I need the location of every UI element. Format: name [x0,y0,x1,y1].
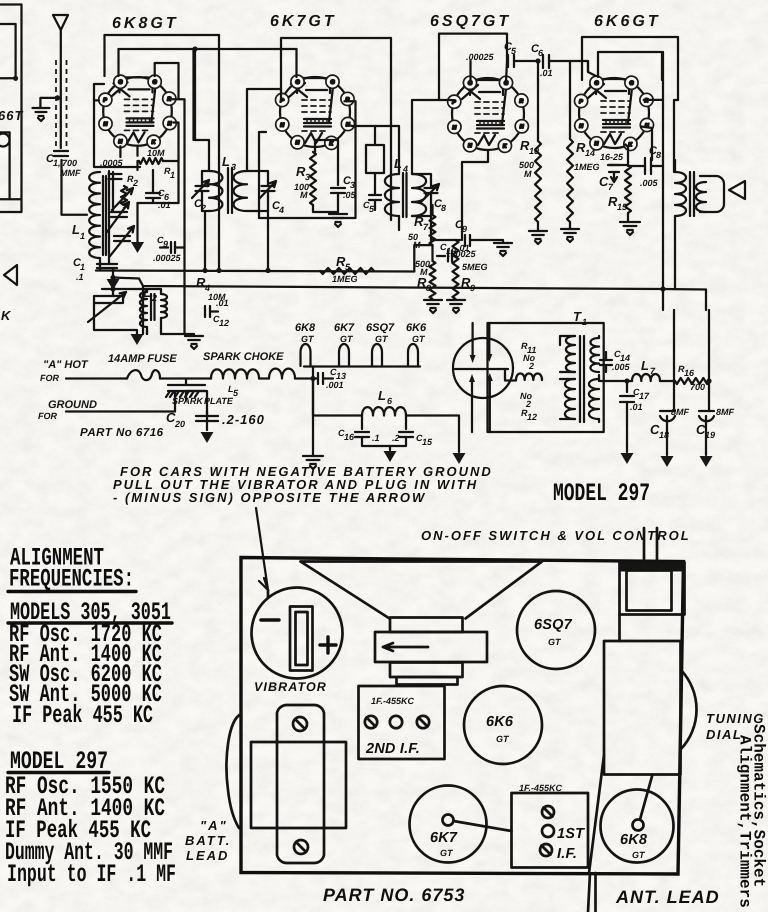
svg-text:.2: .2 [392,433,400,443]
svg-text:66T: 66T [0,108,23,123]
capacitor C17 .01 [620,381,634,452]
svg-text:1,: 1, [53,158,61,168]
svg-text:16-25: 16-25 [600,152,624,162]
svg-text:1: 1 [170,170,175,180]
svg-text:8MF: 8MF [671,407,690,417]
svg-text:1: 1 [80,231,85,241]
tube V1 6K8GT pins [99,75,177,148]
wire plate vertical x219 down to AVC bus [218,35,220,271]
ground under C3 [313,205,338,214]
svg-text:LEAD: LEAD [186,848,229,863]
wire cathode junction [609,145,628,166]
capacitor C13 .001 [313,373,333,384]
trimmer capacitor across L2 [94,296,123,320]
tube V3 6SQ7GT envelope [452,78,524,150]
svg-text:14AMP FUSE: 14AMP FUSE [108,353,177,365]
svg-text:G: G [153,80,157,86]
output transformer primary [675,172,686,216]
wire choke to vibrator coil [259,377,269,379]
tube V2 6K7GT pins [276,75,355,149]
coil L2 secondary [161,294,167,318]
svg-text:6K7GT: 6K7GT [270,13,337,30]
svg-text:8MF: 8MF [716,407,735,417]
wire pin N to grid resistor box [174,123,179,158]
solid arrow ground return of oscillator [136,203,138,242]
IF transformer L3 secondary [234,171,247,211]
wire L1 bottom to AVC bus [99,258,101,271]
vibrator circle on chassis [252,588,343,679]
svg-text:.0005: .0005 [100,158,124,168]
underline model 297 [8,771,109,774]
trimmer capacitor across L1 (osc padder) [111,212,127,217]
capacitor C12 .01 [205,306,218,317]
wire plate 6K7GT to L4 [315,140,338,160]
wire grid line x193.5 [192,49,194,140]
svg-text:17: 17 [639,391,650,401]
resistor R8 500M [430,261,436,299]
svg-text:H: H [119,139,123,145]
vibrator socket circle [453,338,513,398]
wire top bus 2 [119,48,297,50]
svg-text:GT: GT [301,334,315,344]
svg-text:H: H [104,122,108,128]
wire pin to right [344,101,355,218]
box around 6K8GT left [94,84,140,167]
screw bottom bracket [294,840,308,854]
svg-text:"A" HOT: "A" HOT [43,359,89,371]
control shaft [644,528,657,561]
wire AVC bus 1 [96,271,414,272]
wire B+ rails down [663,289,709,411]
svg-text:16: 16 [344,432,355,442]
svg-text:GT: GT [496,734,510,744]
capacitor C1b .1 on antenna coil return [97,264,117,278]
resistor R5 1MEG in AVC bus [320,268,374,274]
IF transformer L4 primary [385,174,399,216]
wire control box to tuning box [618,615,621,642]
hash coil to heater [269,369,295,379]
svg-text:FREQUENCIES:: FREQUENCIES: [9,565,134,594]
svg-text:1F.-455KC: 1F.-455KC [519,783,563,793]
ground under R10 [537,222,539,230]
core L3 [228,168,232,213]
capacitor C15 .2 [390,416,413,447]
trimmer C4 on L3 secondary [262,186,275,191]
tuning condenser box [604,641,681,775]
coil L2 primary [140,292,147,327]
ground under R8 [424,300,442,313]
wire grid cap 6K7GT [281,49,297,100]
chassis outline [241,558,684,875]
speaker cone outline [301,562,543,619]
wire pin P to box [94,99,99,101]
svg-text:Input to IF .1 MF: Input to IF .1 MF [7,860,176,889]
resistor R9 5MEG [454,255,456,257]
wire transformer secondary bottom [674,160,676,289]
T1 secondary windings [590,338,599,372]
antenna symbol [53,15,68,30]
tube V1 6K8GT envelope [103,77,172,146]
tube V4 6K6GT pins [575,76,654,150]
wire top box of 6K7GT [281,38,391,220]
capacitor C9b .00025 and ground [431,235,503,246]
svg-text:N: N [168,121,172,127]
power transformer bracket [277,705,324,863]
svg-text:GROUND: GROUND [48,399,97,411]
svg-text:FOR: FOR [38,411,57,421]
tube circle 6K7 on chassis [410,786,487,863]
svg-text:16: 16 [684,368,695,378]
svg-text:.00025: .00025 [466,52,495,62]
1st IF shield box [512,793,589,868]
tube circle 6K8 on chassis [601,790,674,863]
svg-text:.00025: .00025 [153,253,182,263]
svg-text:L: L [222,154,231,169]
svg-text:6K6: 6K6 [486,714,514,730]
svg-text:12: 12 [219,318,229,328]
svg-text:.2-160: .2-160 [222,412,265,427]
wire ground lead to spark plate [66,391,175,412]
capacitor C14 .005 buffer [600,352,612,372]
svg-text:GT: GT [340,334,354,344]
capacitor C4 .0005 [109,174,122,179]
ground under R15 [627,213,629,221]
capacitor C9 .00025 AVC [160,242,185,253]
partial circuit at left edge (cut off) [0,5,22,213]
resistor R14 1MEG volume control [569,61,571,139]
screws in 1st IF box [542,806,554,818]
underline heading [8,590,136,593]
svg-text:PLATE: PLATE [204,396,234,406]
battery lead wire [227,714,241,828]
svg-text:6K7: 6K7 [430,830,458,846]
2nd IF shield box [359,686,445,759]
svg-text:G: G [595,81,599,87]
resistor R7 50M [414,245,431,271]
filter choke L6 [362,407,406,415]
T1 primary windings [566,336,575,372]
svg-text:1: 1 [582,317,587,327]
wire screen [641,127,652,161]
tube circle 6SQ7 on chassis [517,591,595,669]
svg-text:.01: .01 [216,298,229,308]
svg-text:M: M [300,190,308,200]
svg-text:.001: .001 [326,380,344,390]
resistor R6 box to stage 3 [366,145,384,173]
wire 6K8 to tuning box [640,775,653,820]
capacitor C19 8MF electrolytic [699,411,714,455]
svg-text:GT: GT [548,637,562,647]
capacitor C3 .05 [331,160,345,212]
svg-text:6SQ7GT: 6SQ7GT [430,13,511,30]
wire L6 right to buffer [406,416,459,453]
wire R7 top to tube2 cathode bus [431,205,433,215]
speaker cone triangle [729,181,745,199]
antenna lead wire diagonal [588,755,604,912]
wire grid connections 6SQ7GT [439,61,471,100]
wire R1 to C6 box [138,157,179,203]
wire pin R right to oscillator section [172,99,184,334]
svg-text:6K8: 6K8 [295,322,316,334]
svg-text:8: 8 [656,150,661,160]
svg-text:8: 8 [441,203,446,213]
svg-text:G: G [630,81,634,87]
svg-text:H: H [280,122,284,128]
heater bus wire [304,365,420,367]
wire heater region to L6 filter [313,379,362,416]
wire plate of 6SQ7 to C5 [506,61,507,82]
wire top box 6SQ7GT [439,34,507,100]
vibrator slot [290,607,313,671]
svg-text:700: 700 [690,382,705,392]
svg-text:9: 9 [163,239,168,249]
vibrator contacts [455,368,508,370]
svg-text:4: 4 [278,205,284,215]
svg-text:15: 15 [617,202,628,212]
svg-text:.005: .005 [612,362,631,372]
svg-text:1MEG: 1MEG [574,162,600,172]
svg-text:6SQ7: 6SQ7 [366,322,395,334]
heater pin loops [301,344,311,366]
svg-text:H: H [468,143,472,149]
power transformer core on chassis [251,742,346,828]
IF transformer L4 secondary [412,174,426,216]
fuse MAMR [127,370,160,380]
resistor R15 cathode [627,147,629,165]
svg-text:1ST: 1ST [557,826,585,842]
wire antenna lead vertical [61,30,87,215]
svg-text:L: L [641,358,650,373]
tube circle 6K6 on chassis [464,686,542,764]
spark plate capacitor C20 [166,379,205,398]
tube V2 6K7GT envelope [280,77,350,147]
screw top bracket [293,717,307,731]
resistor R2 variable [121,186,127,208]
capacitor C6 .01 [146,193,160,198]
svg-text:4: 4 [402,164,408,174]
trimmer C8 on L4 secondary [425,188,438,193]
wire 6SQ7 cathode down [462,150,488,240]
solid arrow at C1b junction [107,279,120,290]
tube V4 6K6GT envelope [579,78,649,148]
junction node at L2 [110,286,115,291]
capacitor C8b .005 tone [628,158,663,174]
wire T1 secondary to L7 [599,375,632,381]
trimmer C2 on L3 primary [196,186,209,191]
svg-text:20: 20 [174,419,185,429]
svg-text:BATT.: BATT. [185,833,231,848]
capacitor C5 .00025 coupling [507,55,538,67]
wire vertical x195 to L3 [194,49,196,140]
resistor R10 500M diode load [537,61,539,141]
capacitor C16 .1 [355,416,390,447]
svg-text:.01: .01 [630,402,643,412]
svg-text:GT: GT [375,334,389,344]
partial tube pin at left edge [0,134,10,147]
buffer box around T1 [488,323,604,432]
spark choke coil L5 [211,369,259,378]
svg-text:L: L [378,388,387,403]
wire fuse to choke [160,377,211,379]
resistor R1 10M horizontal [139,158,163,164]
svg-text:.1: .1 [76,272,84,282]
svg-text:PART No 6716: PART No 6716 [80,427,164,439]
IF transformer L3 primary [209,171,222,211]
svg-text:GT: GT [412,334,426,344]
svg-text:ANT. LEAD: ANT. LEAD [615,887,720,907]
wire top-right pin to R1 box [155,63,179,99]
underline models [8,621,172,624]
svg-text:K: K [1,308,12,323]
svg-text:ON-OFF SWITCH & VOL CONTROL: ON-OFF SWITCH & VOL CONTROL [421,528,691,543]
filter choke L7 [632,374,660,381]
screws in 2nd IF box [365,716,377,728]
svg-text:6SQ7: 6SQ7 [534,617,573,633]
svg-text:SPARK CHOKE: SPARK CHOKE [203,351,284,363]
svg-text:18: 18 [659,430,669,440]
small coil in buffer box [516,373,542,380]
svg-text:T: T [573,309,582,324]
core lines L1 [103,176,106,255]
wire grid 6K6GT [588,61,596,76]
wire L1 secondary right vertical [109,171,113,264]
capacitor C5b [369,190,381,210]
svg-text:SPARK: SPARK [172,396,204,406]
wire heater bus to ground [312,367,314,456]
wire bus2 drop from L2 region [142,286,144,334]
wire grid top-left of 6K8GT from bus [105,35,119,76]
resistor R3 100M [314,147,316,152]
svg-text:MMF: MMF [60,168,81,178]
tuning dial arc [681,670,697,749]
resistor R16 700 ohm [675,378,709,384]
wire spark plate to ground arrow [186,391,207,430]
svg-text:6K8: 6K8 [620,832,648,848]
junction below C1b [110,275,115,280]
svg-text:R: R [520,98,524,104]
wire top bus 1 [105,34,220,36]
box left of 6K7GT [259,132,355,218]
wire A lead [66,377,127,379]
ground for antenna shield [40,98,57,108]
svg-text:FOR: FOR [40,373,59,383]
solid arrow ground L2 [94,320,147,334]
svg-text:3: 3 [305,172,310,182]
svg-text:6K8GT: 6K8GT [112,15,179,32]
svg-text:6K6GT: 6K6GT [594,13,661,30]
ground symbol L2 secondary [161,334,194,336]
svg-text:3: 3 [231,162,236,172]
electrolytic C7 cathode [608,165,620,182]
core L2 [151,294,155,320]
svg-text:- (MINUS SIGN) OPPOSITE THE AR: - (MINUS SIGN) OPPOSITE THE ARROW [113,490,426,505]
svg-text:2ND I.F.: 2ND I.F. [365,741,420,757]
ground under R9 [447,300,465,313]
svg-text:IF Peak 455 KC: IF Peak 455 KC [12,701,153,730]
wires L4 [391,100,439,240]
svg-text:10: 10 [529,146,539,156]
svg-text:GT: GT [632,850,646,860]
svg-text:15: 15 [422,437,433,447]
svg-text:2: 2 [528,361,534,371]
svg-text:1: 1 [80,262,85,272]
wires L3 connections [195,89,281,271]
svg-text:.01: .01 [158,200,171,210]
svg-text:12: 12 [527,412,537,422]
wire top box 6K6GT [582,37,678,100]
svg-text:G: G [331,80,335,86]
speaker lower plates [390,663,463,678]
speaker frame bar with arrow [375,632,487,662]
arrow from note to vibrator [256,508,268,590]
control box with dark top [620,563,685,572]
svg-text:GT: GT [440,848,454,858]
svg-text:3: 3 [350,180,355,190]
T1 core [580,336,584,422]
vibrator plus sign [320,637,336,653]
antenna shield dashed lines [55,60,57,150]
tube V3 6SQ7GT pins [448,76,529,152]
svg-text:M: M [413,240,421,250]
svg-text:VIBRATOR: VIBRATOR [254,680,327,694]
wire AVC bus 2 long [139,279,706,290]
core L4 [403,173,407,217]
wire tube1 cathode to R1 net [120,146,137,157]
svg-text:H: H [453,125,457,131]
svg-text:19: 19 [705,430,715,440]
capacitor C1 700MMF trimmer on antenna lead [54,151,68,156]
capacitor C6b .01 coupling [543,55,588,72]
output transformer core [690,172,694,216]
svg-text:1F.-455KC: 1F.-455KC [371,696,415,706]
svg-text:.05: .05 [343,190,357,200]
svg-text:H: H [595,141,599,147]
svg-text:2: 2 [132,178,138,188]
wire inner top box 6K6GT [598,52,662,80]
arrow head at vibrator [267,590,270,598]
svg-text:.01: .01 [540,68,553,78]
svg-text:6K6: 6K6 [406,322,427,334]
speaker magnet stack [390,618,463,633]
svg-text:H: H [296,140,300,146]
wires T1 internal [560,336,599,422]
ground under R14 [569,222,571,228]
svg-text:I.F.: I.F. [557,846,577,862]
svg-text:PART NO. 6753: PART NO. 6753 [323,885,465,905]
trimmer capacitor 2 [114,236,130,241]
svg-text:5MEG: 5MEG [462,262,488,272]
svg-text:N: N [520,124,524,130]
svg-text:700: 700 [62,158,77,168]
svg-text:.1: .1 [372,433,380,443]
capacitor C10 .01 [433,245,456,262]
svg-text:6K7: 6K7 [334,322,355,334]
ground arrow under C15 C16 [389,446,391,450]
svg-text:"A": "A" [200,818,228,833]
wire plate to output transformer [644,52,678,289]
svg-text:G: G [119,80,123,86]
svg-text:R: R [167,97,171,103]
speaker voice coil [700,176,724,212]
left pointing triangle connector [4,265,17,285]
coil L1 primary [89,172,100,258]
svg-text:MODEL 297: MODEL 297 [553,479,650,508]
svg-text:1MEG: 1MEG [332,274,358,284]
svg-text:G: G [296,80,300,86]
svg-text:10M: 10M [147,148,165,158]
svg-text:.005: .005 [640,178,659,188]
wire 6K7 to 1st IF [454,821,512,831]
